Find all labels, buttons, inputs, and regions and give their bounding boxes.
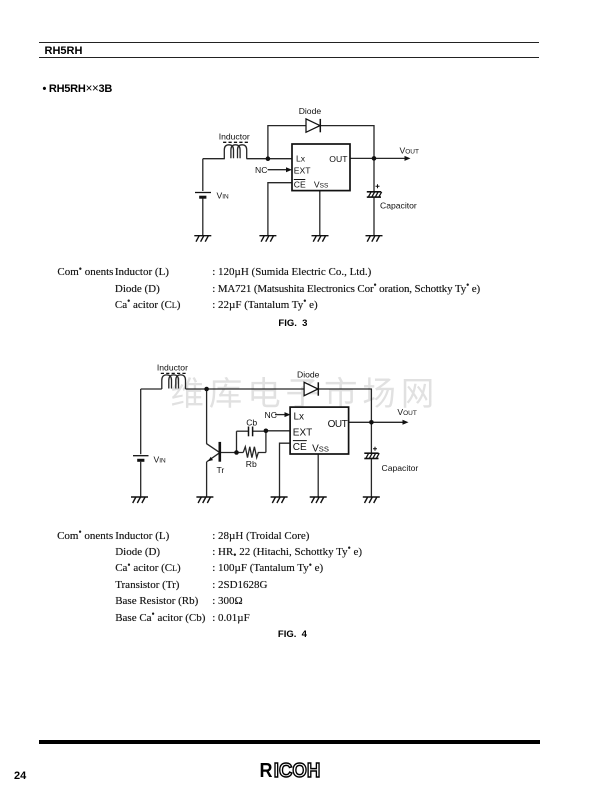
svg-text:Lx: Lx <box>294 412 305 423</box>
svg-text:Diode: Diode <box>297 370 320 380</box>
svg-text:CE: CE <box>294 180 306 190</box>
svg-text:Inductor: Inductor <box>219 131 250 141</box>
svg-text:Rb: Rb <box>246 459 257 469</box>
svg-text:Tr: Tr <box>217 465 225 475</box>
svg-text:Capacitor: Capacitor <box>382 463 419 473</box>
svg-text:NC: NC <box>255 165 267 175</box>
svg-text:VOUT: VOUT <box>400 145 419 155</box>
svg-text:Capacitor: Capacitor <box>380 201 417 211</box>
svg-text:Cb: Cb <box>246 418 257 428</box>
svg-text:OUT: OUT <box>329 154 348 164</box>
svg-text:VSS: VSS <box>312 443 329 454</box>
svg-text:NC: NC <box>265 410 277 420</box>
svg-text:VIN: VIN <box>154 454 167 464</box>
svg-text:R: R <box>260 759 273 782</box>
svg-text:EXT: EXT <box>293 427 312 438</box>
svg-text:EXT: EXT <box>294 166 311 176</box>
svg-text:VIN: VIN <box>217 190 230 200</box>
svg-text:Diode: Diode <box>299 106 322 116</box>
svg-text:Lx: Lx <box>296 153 306 163</box>
svg-text:ICOH: ICOH <box>274 759 321 782</box>
svg-text:OUT: OUT <box>328 419 348 430</box>
svg-text:VOUT: VOUT <box>397 407 416 417</box>
svg-text:CE: CE <box>293 442 307 453</box>
svg-text:Inductor: Inductor <box>157 363 188 373</box>
